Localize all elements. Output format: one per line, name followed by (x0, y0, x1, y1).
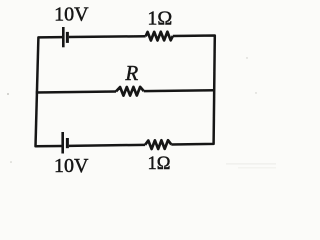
wire middle-left segment (36, 90, 116, 93)
wire middle-right segment (144, 89, 215, 92)
battery B2 bottom 10V long plate (61, 132, 64, 154)
wire left loop: top-left stub, left vertical, bottom-left stub (36, 37, 63, 146)
battery B2 bottom 10V short plate (66, 138, 69, 148)
resistor R middle zigzag (116, 87, 144, 96)
svg-text:R: R (124, 61, 138, 85)
wire right loop: top-right stub, right vertical, bottom-right stub (171, 36, 215, 145)
battery B1 top 10V short plate (66, 32, 69, 43)
resistor R1 1 ohm top zigzag (146, 32, 173, 41)
battery B1 top 10V long plate (62, 27, 65, 47)
svg-text:10V: 10V (54, 155, 89, 177)
svg-text:1Ω: 1Ω (147, 8, 172, 30)
svg-text:1Ω: 1Ω (148, 154, 171, 174)
wire bottom battery to resistor (69, 145, 145, 146)
resistor R2 1 ohm bottom zigzag (145, 140, 171, 149)
scan speckles (7, 57, 276, 168)
wire top battery to resistor (69, 35, 146, 38)
svg-text:10V: 10V (54, 4, 89, 26)
